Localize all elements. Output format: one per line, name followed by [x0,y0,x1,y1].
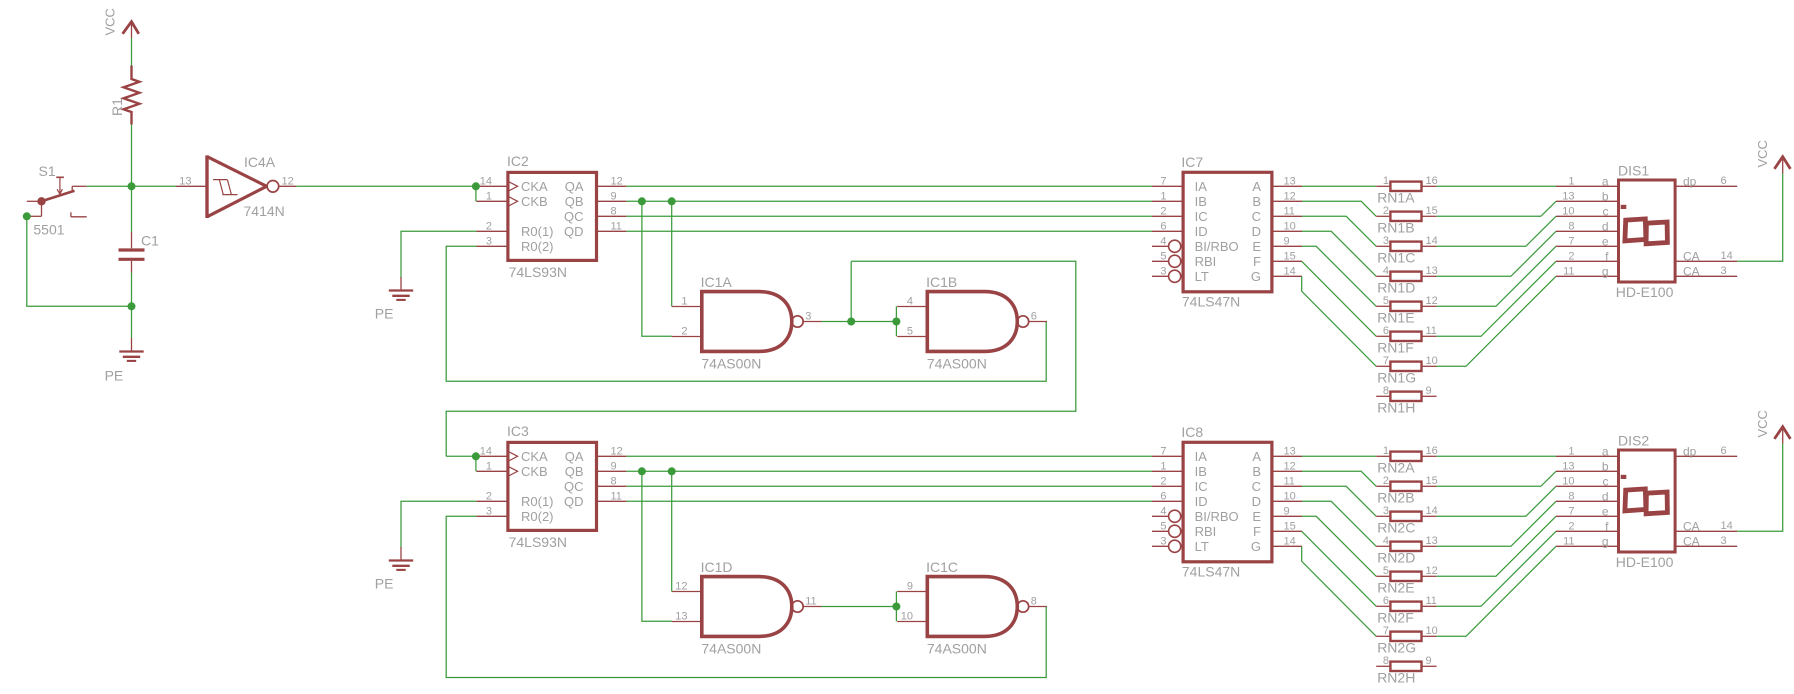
svg-text:8: 8 [1031,596,1037,608]
IC1A pin 3 (output) [803,321,821,323]
svg-text:G: G [1251,269,1261,284]
svg-text:1: 1 [486,460,492,472]
wire IC8 C to resistor [1302,486,1376,516]
decoder IC8 74LS47N box [1183,442,1272,562]
svg-text:6: 6 [1031,311,1037,323]
wire IC7 A to resistor [1302,185,1376,187]
svg-text:IC7: IC7 [1181,154,1203,170]
svg-text:a: a [1602,174,1609,188]
svg-text:RN1E: RN1E [1377,310,1414,326]
junction at S1 lower pin [23,212,31,220]
IC3 clock wedge CKB [508,466,518,476]
wire IC3 QD to IC8 ID [626,500,1152,502]
wire IC2 QB to IC7 IB [626,200,1152,202]
wire DIS2 segment e [1437,516,1556,576]
svg-text:6: 6 [1160,490,1166,502]
IC1C pin 9 (input) [897,591,927,593]
wire IC2 R0(1) to PE ground [401,231,476,278]
wire QB tap to IC1D pin 12 [671,471,673,591]
wire IC3 QB to IC8 IB [626,470,1152,472]
svg-text:7414N: 7414N [244,203,285,219]
svg-text:RN2B: RN2B [1377,490,1414,506]
IC7 pin 10 (D) [1272,230,1302,232]
svg-text:R0(1): R0(1) [521,224,554,239]
svg-text:R0(2): R0(2) [521,239,554,254]
wire IC8 D to resistor [1302,501,1376,546]
IC3 pin 2 (R0(1)) [476,500,508,502]
svg-text:3: 3 [486,505,492,517]
wire DIS2 segment c [1437,486,1556,516]
svg-text:IC1A: IC1A [701,274,733,290]
svg-text:74LS47N: 74LS47N [1182,564,1240,580]
wire IC3 R0(2) feedback from IC1C output [446,516,1046,677]
svg-text:BI/RBO: BI/RBO [1195,239,1239,254]
DIS1 pin 1 (segment a) [1556,185,1619,187]
svg-text:RN2D: RN2D [1377,550,1415,566]
svg-text:15: 15 [1284,250,1296,262]
capacitor C1 [131,232,133,248]
svg-text:10: 10 [901,611,913,623]
wire QB tap to IC1D pin 13 [642,471,672,621]
counter IC2 74LS93N box [508,172,597,260]
svg-text:RN1G: RN1G [1377,370,1416,386]
IC7 pin 3 (LT) [1152,275,1169,277]
IC7 pin 9 (E) [1272,245,1302,247]
svg-text:1: 1 [681,296,687,308]
svg-text:IC1C: IC1C [926,559,958,575]
DIS1 pin 10 (segment c) [1556,215,1619,217]
IC8 pin 1 (IB) [1152,470,1183,472]
svg-text:10: 10 [1562,205,1574,217]
IC2 pin 14 (CKA) [476,185,508,187]
svg-text:LT: LT [1195,269,1209,284]
switch S1 (pushbutton 5501) [27,200,42,202]
svg-text:CKB: CKB [521,194,548,209]
wire IC3 QC to IC8 IC [626,485,1152,487]
svg-text:3: 3 [486,235,492,247]
wire DIS1 segment g [1437,276,1556,366]
svg-text:11: 11 [1284,475,1295,487]
svg-text:RBI: RBI [1195,254,1217,269]
wire IC1A output riser [850,261,852,321]
svg-text:1: 1 [1568,175,1574,187]
IC2 pin 12 (QA) [597,185,627,187]
wire DIS1 segment a [1437,185,1556,187]
svg-text:RN1C: RN1C [1377,250,1415,266]
svg-text:9: 9 [1284,505,1290,517]
svg-text:3: 3 [1721,265,1727,277]
resistor RN1F [1376,335,1390,337]
svg-text:g: g [1602,534,1609,548]
svg-text:9: 9 [1426,655,1432,667]
svg-text:QA: QA [565,449,584,464]
svg-text:RN2G: RN2G [1377,640,1416,656]
svg-text:6: 6 [1721,175,1727,187]
wire R1 to node [131,125,133,187]
svg-text:14: 14 [1284,265,1296,277]
IC8 pin 7 (IA) [1152,455,1183,457]
svg-text:2: 2 [1383,205,1389,217]
wire IC7 C to resistor [1302,216,1376,246]
junction IC2 CKA [472,182,480,190]
wire IC2 QD to IC7 ID [626,230,1152,232]
hysteresis mark inside IC4A [213,180,238,195]
DIS1 seven-segment digit 8 (sideways) [1625,219,1646,241]
svg-text:PE: PE [375,306,394,322]
wire to PE ground (left) [131,306,133,338]
svg-text:12: 12 [1284,190,1296,202]
power VCC symbol (right bottom) [1774,427,1790,439]
svg-text:14: 14 [480,445,492,457]
IC2 pin 9 (QB) [597,200,627,202]
DIS1 pin 8 (segment d) [1556,230,1619,232]
svg-text:BI/RBO: BI/RBO [1195,509,1239,524]
resistor R1 [124,66,140,125]
svg-text:4: 4 [1383,535,1389,547]
svg-text:RN2C: RN2C [1377,520,1415,536]
svg-text:6: 6 [1383,325,1389,337]
junction IC3 CKA [472,452,480,460]
nand gate IC1D 74AS00N [702,577,792,637]
ground PE symbol (near IC3) [400,547,402,561]
svg-text:DIS1: DIS1 [1618,163,1649,179]
svg-text:9: 9 [611,190,617,202]
junction QB tap 1 [638,197,646,205]
IC7 pin 12 (B) [1272,200,1302,202]
svg-text:1: 1 [1160,190,1166,202]
svg-text:B: B [1252,194,1261,209]
ground PE symbol (near IC2) [400,277,402,291]
wire DIS2 CA to VCC [1737,444,1783,532]
svg-text:15: 15 [1426,205,1438,217]
svg-text:2: 2 [1160,475,1166,487]
IC3 pin 14 (CKA) [476,455,508,457]
svg-text:74LS93N: 74LS93N [509,534,567,550]
wire IC2 CKA to CKB [475,186,477,201]
IC2 pin 8 (QC) [597,215,627,217]
svg-text:13: 13 [1284,445,1296,457]
svg-text:13: 13 [1284,175,1296,187]
IC1D pin 12 (input) [672,591,702,593]
resistor RN2B [1376,485,1390,487]
svg-text:4: 4 [907,296,913,308]
svg-text:IB: IB [1195,194,1207,209]
IC7 pin 6 (ID) [1152,230,1183,232]
decoder IC7 74LS47N box [1183,172,1272,291]
svg-text:VCC: VCC [103,8,118,35]
junction QB tap 2 [668,197,676,205]
svg-text:RN1B: RN1B [1377,220,1414,236]
svg-text:4: 4 [1383,265,1389,277]
svg-text:14: 14 [1426,235,1438,247]
svg-text:ID: ID [1195,494,1208,509]
svg-text:7: 7 [1160,445,1166,457]
svg-text:5: 5 [1383,295,1389,307]
svg-text:14: 14 [1721,520,1733,532]
svg-text:IA: IA [1195,449,1208,464]
svg-text:11: 11 [1563,265,1574,277]
svg-text:B: B [1252,464,1261,479]
IC3 pin 12 (QA) [597,455,627,457]
svg-text:CA: CA [1683,264,1700,278]
IC8 pin 13 (A) [1272,455,1302,457]
svg-text:IB: IB [1195,464,1207,479]
svg-text:C1: C1 [141,233,159,249]
wire IC8 A to resistor [1302,455,1376,457]
svg-text:IC4A: IC4A [244,154,276,170]
wire DIS1 segment b [1437,201,1556,216]
svg-text:14: 14 [1284,535,1296,547]
svg-text:S1: S1 [39,163,56,179]
svg-text:QC: QC [564,209,584,224]
DIS2 pin 11 (segment g) [1556,545,1619,547]
wire DIS2 segment g [1437,546,1556,636]
svg-text:CKA: CKA [521,449,548,464]
wire VCC to R1 [131,38,133,66]
svg-text:C: C [1252,209,1261,224]
wire IC1A output to IC1B inputs [822,321,897,323]
svg-text:2: 2 [486,220,492,232]
counter IC3 74LS93N box [508,442,597,530]
svg-text:R1: R1 [109,98,125,116]
svg-text:QA: QA [565,179,584,194]
IC7 pin 4 (BI/RBO) [1152,245,1169,247]
svg-text:13: 13 [179,175,191,187]
DIS1 pin 3 (CA) [1675,275,1737,277]
svg-text:2: 2 [486,490,492,502]
IC1A pin 2 (input) [672,336,702,338]
svg-text:4: 4 [1160,235,1166,247]
svg-text:5501: 5501 [33,222,64,238]
svg-text:QB: QB [565,464,584,479]
svg-text:5: 5 [907,326,913,338]
IC8 pin 9 (E) [1272,515,1302,517]
DIS2 pin 7 (segment e) [1556,515,1619,517]
svg-text:12: 12 [282,175,294,187]
svg-text:1: 1 [1383,175,1389,187]
resistor RN2G [1376,635,1390,637]
IC3 pin 1 (CKB) [476,470,508,472]
IC7 pin 15 (F) [1272,260,1302,262]
junction IC1A output net [847,318,855,326]
IC3 pin 3 (R0(2)) [476,515,508,517]
svg-text:8: 8 [611,205,617,217]
svg-text:3: 3 [805,311,811,323]
resistor RN1E [1376,305,1390,307]
IC1C pin 10 (input) [897,621,927,623]
wire DIS2 segment d [1437,501,1556,546]
svg-text:13: 13 [1426,535,1438,547]
svg-text:11: 11 [611,220,622,232]
svg-text:8: 8 [1383,655,1389,667]
IC7 pin 7 (IA) [1152,185,1183,187]
resistor RN1B [1376,215,1390,217]
svg-text:b: b [1602,189,1609,203]
ground PE symbol (below C1) [131,338,133,352]
svg-text:5: 5 [1160,250,1166,262]
junction node R1/S1/C1/IC4A [128,182,136,190]
IC8 pin 12 (B) [1272,470,1302,472]
svg-text:VCC: VCC [1755,410,1770,437]
DIS1 pin 13 (segment b) [1556,200,1619,202]
wire QB tap to IC1A pin 1 [671,201,673,306]
IC7 pin 14 (G) [1272,275,1302,277]
IC8 pin 2 (IC) [1152,485,1183,487]
wire to IC3 CKA [446,455,476,457]
junction QB tap 4 [668,467,676,475]
svg-text:1: 1 [486,190,492,202]
svg-text:F: F [1253,524,1261,539]
svg-text:12: 12 [1426,295,1438,307]
svg-text:QD: QD [564,494,584,509]
wire IC7 G to resistor [1302,276,1377,366]
svg-text:D: D [1252,494,1261,509]
IC3 pin 9 (QB) [597,470,627,472]
svg-text:IC3: IC3 [507,423,529,439]
svg-text:10: 10 [1426,355,1438,367]
svg-text:E: E [1252,509,1261,524]
svg-text:11: 11 [1426,595,1437,607]
svg-text:7: 7 [1383,355,1389,367]
svg-text:6: 6 [1160,220,1166,232]
IC3 pin 11 (QD) [597,500,627,502]
IC1C pin 8 (output) [1029,606,1047,608]
wire IC8 B to resistor [1302,471,1376,486]
IC8 pin 15 (F) [1272,530,1302,532]
wire DIS1 segment c [1437,216,1556,246]
svg-text:C: C [1252,479,1261,494]
resistor RN2C [1376,515,1390,517]
wire DIS2 segment b [1437,471,1556,486]
svg-text:CA: CA [1683,519,1700,533]
resistor RN2H [1376,665,1390,667]
svg-text:RN2H: RN2H [1377,670,1415,686]
svg-text:RBI: RBI [1195,524,1217,539]
wire S1 lower contact to ground rail [27,216,132,306]
svg-text:16: 16 [1426,445,1438,457]
svg-text:G: G [1251,539,1261,554]
svg-text:CA: CA [1683,249,1700,263]
resistor RN1H [1376,395,1390,397]
svg-text:HD-E100: HD-E100 [1616,554,1674,570]
svg-text:15: 15 [1284,520,1296,532]
svg-text:3: 3 [1721,535,1727,547]
resistor RN1G [1376,365,1390,367]
IC8 pin 3 (LT) [1152,545,1169,547]
junction IC1C inputs [892,603,900,611]
wire IC8 G to resistor [1302,546,1377,636]
DIS1 pin 2 (segment f) [1556,260,1619,262]
IC7 pin 13 (A) [1272,185,1302,187]
svg-text:74LS93N: 74LS93N [509,264,567,280]
svg-text:7: 7 [1568,235,1574,247]
junction ground rail [128,302,136,310]
svg-text:d: d [1602,489,1609,503]
svg-text:11: 11 [611,490,622,502]
DIS1 pin 7 (segment e) [1556,245,1619,247]
svg-text:R0(2): R0(2) [521,509,554,524]
IC1D pin 11 (output) [803,606,821,608]
wire IC4A output to IC2 CKA [296,185,476,187]
wire QB tap to IC1A pin 2 [642,201,672,336]
DIS1 decimal point [1621,205,1627,209]
svg-text:b: b [1602,459,1609,473]
svg-text:CKB: CKB [521,464,548,479]
wire IC3 QA to IC8 IA [626,455,1152,457]
svg-text:IC: IC [1195,209,1208,224]
wire DIS1 segment f [1437,261,1556,336]
wire IC2 QC to IC7 IC [626,215,1152,217]
svg-text:9: 9 [611,460,617,472]
junction IC1B inputs [892,318,900,326]
DIS2 pin 1 (segment a) [1556,455,1619,457]
svg-text:14: 14 [480,175,492,187]
svg-text:16: 16 [1426,175,1438,187]
IC8 pin 6 (ID) [1152,500,1183,502]
svg-text:3: 3 [1383,235,1389,247]
svg-text:QD: QD [564,224,584,239]
DIS2 pin 6 (dp) [1675,455,1737,457]
svg-text:CA: CA [1683,534,1700,548]
svg-text:IC1B: IC1B [926,274,957,290]
wire DIS2 segment a [1437,455,1556,457]
IC8 pin 4 (BI/RBO) [1152,515,1169,517]
svg-text:dp: dp [1683,444,1697,458]
svg-text:14: 14 [1426,505,1438,517]
svg-text:RN1F: RN1F [1377,340,1414,356]
svg-text:3: 3 [1160,535,1166,547]
svg-text:6: 6 [1383,595,1389,607]
display DIS1 HD-E100 box [1619,180,1676,282]
IC2 pin 11 (QD) [597,230,627,232]
DIS1 pin 11 (segment g) [1556,275,1619,277]
svg-text:2: 2 [681,326,687,338]
svg-text:1: 1 [1160,460,1166,472]
wire node to C1 [131,186,133,232]
display DIS2 HD-E100 box [1619,450,1676,552]
IC1B pin 4 (input) [897,306,927,308]
svg-text:2: 2 [1160,205,1166,217]
svg-text:IA: IA [1195,179,1208,194]
wire DIS1 segment e [1437,246,1556,306]
svg-text:RN2E: RN2E [1377,580,1414,596]
svg-text:A: A [1252,179,1261,194]
power VCC symbol (top left) [123,22,139,34]
svg-text:PE: PE [375,576,394,592]
svg-text:11: 11 [1563,535,1574,547]
svg-text:2: 2 [1568,520,1574,532]
svg-text:15: 15 [1426,475,1438,487]
DIS1 pin 6 (dp) [1675,185,1737,187]
svg-text:13: 13 [1562,190,1574,202]
svg-text:8: 8 [1568,490,1574,502]
svg-text:7: 7 [1160,175,1166,187]
svg-text:74LS47N: 74LS47N [1182,294,1240,310]
svg-text:LT: LT [1195,539,1209,554]
svg-text:12: 12 [1426,565,1438,577]
IC7 pin 5 (RBI) [1152,260,1169,262]
svg-text:ID: ID [1195,224,1208,239]
IC2 clock wedge CKA [508,181,518,191]
resistor RN1A [1376,185,1390,187]
svg-text:RN2F: RN2F [1377,610,1414,626]
IC3 clock wedge CKA [508,451,518,461]
svg-text:PE: PE [105,367,124,383]
IC3 pin 8 (QC) [597,485,627,487]
svg-text:CKA: CKA [521,179,548,194]
wire IC2 R0(2) feedback from IC1B output [446,246,1046,381]
DIS2 pin 3 (CA) [1675,545,1737,547]
